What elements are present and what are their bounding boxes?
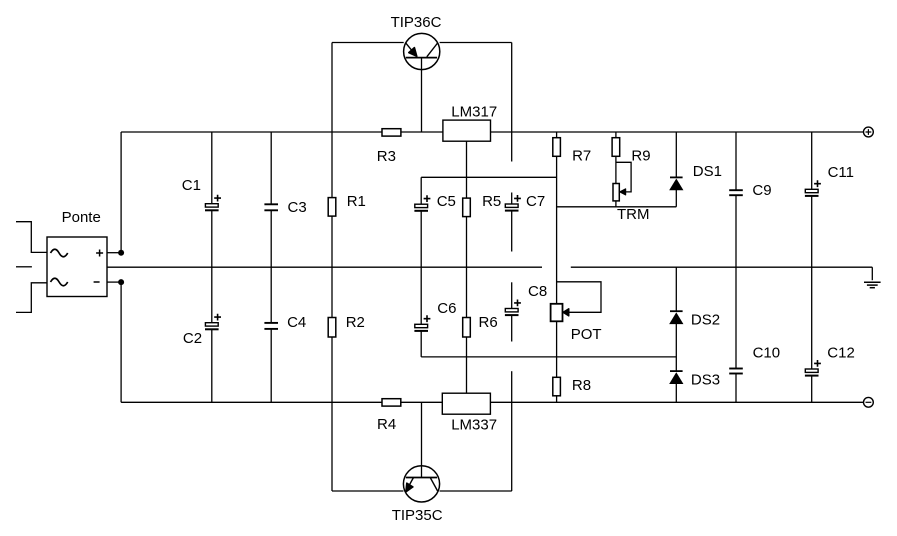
svg-text:R7: R7 <box>572 148 591 165</box>
svg-text:TIP36C: TIP36C <box>391 14 442 31</box>
svg-text:C5: C5 <box>437 193 456 210</box>
bridge rectifier "Ponte" <box>47 237 107 297</box>
wire: C3 bottom / C4 top lead <box>270 210 272 323</box>
ground symbol <box>864 267 881 288</box>
wire: C7 bottom lead <box>511 211 513 251</box>
terminal - output <box>864 397 874 407</box>
svg-text:R6: R6 <box>479 314 498 331</box>
wire: DS2 top lead from 0V rail <box>675 267 677 311</box>
wire: C6 bottom lead to inner loop bottom <box>420 332 422 357</box>
wire: mid 0V rail right segment <box>571 266 873 268</box>
capacitor C8 (electrolytic) <box>505 300 521 316</box>
diode DS2 <box>670 311 683 324</box>
wire: C12 bottom lead <box>811 376 813 402</box>
wire: C2 bottom lead <box>211 330 213 402</box>
terminal + output <box>864 127 874 137</box>
resistor R1 <box>328 198 336 217</box>
wire: TIP35C collector to right vertical <box>440 490 512 492</box>
wire: C5 top lead (inner loop left vertical) <box>420 177 422 204</box>
svg-text:R3: R3 <box>377 148 396 165</box>
svg-text:R4: R4 <box>377 416 396 433</box>
trimmer TRM <box>613 184 626 201</box>
svg-text:TRM: TRM <box>617 206 650 223</box>
wire: AC input center tap lead <box>16 266 32 268</box>
wire: R9 top lead <box>615 132 617 138</box>
junction dot + output <box>118 250 124 256</box>
resistor R5 <box>463 198 471 217</box>
svg-text:C12: C12 <box>827 345 855 362</box>
wire: DS3 bottom lead <box>675 384 677 403</box>
wire: left column up to top rail <box>120 132 122 253</box>
svg-text:R9: R9 <box>631 148 650 165</box>
wire: C1 top lead <box>211 132 213 204</box>
wire: C4 bottom lead <box>270 329 272 402</box>
svg-text:R8: R8 <box>572 377 591 394</box>
svg-text:LM337: LM337 <box>451 417 497 434</box>
wire: DS2 to DS3 <box>675 324 677 371</box>
wire: R8 bottom lead <box>556 396 558 403</box>
wire: R1 top lead <box>331 132 333 198</box>
svg-text:LM317: LM317 <box>451 104 497 121</box>
svg-text:C10: C10 <box>753 345 781 362</box>
wire: C5 bottom / C6 top lead <box>420 211 422 324</box>
svg-text:R1: R1 <box>347 193 366 210</box>
svg-text:C9: C9 <box>752 182 771 199</box>
wire: TIP36C collector to right vertical <box>440 42 512 44</box>
wire: bottom loop horizontal left to TIP35C emitter <box>332 490 403 492</box>
wire: AC input lead 1 (top) <box>16 222 47 253</box>
svg-text:DS3: DS3 <box>691 372 720 389</box>
svg-text:C2: C2 <box>183 330 202 347</box>
resistor R9 <box>612 138 620 157</box>
wire: top rail (+ raw supply) y=132 <box>121 131 864 133</box>
wire: C1 bottom / C2 top lead <box>211 211 213 323</box>
capacitor C4 <box>264 323 278 329</box>
wire: DS1 bottom lead <box>675 190 677 207</box>
capacitor C1 (electrolytic) <box>205 195 221 211</box>
wire: inner loop bottom horizontal <box>421 356 676 358</box>
wire: C11 top lead <box>811 132 813 189</box>
wire: TIP36C emitter loop left vertical <box>331 43 333 133</box>
wire: TRM wiper loop <box>616 162 631 192</box>
capacitor C2 (electrolytic) <box>205 314 221 330</box>
svg-text:C3: C3 <box>288 199 307 216</box>
resistor R7 <box>553 138 561 157</box>
wire: POT bottom lead <box>556 321 558 377</box>
capacitor C5 (electrolytic) <box>414 195 430 211</box>
wire: TIP35C base up to bottom rail <box>421 402 423 477</box>
wire: C3 top lead <box>270 132 272 204</box>
wire: TIP35C emitter loop left vertical <box>331 402 333 491</box>
wire: R2 bottom lead <box>331 337 333 402</box>
capacitor C7 (electrolytic) <box>505 195 521 211</box>
svg-text:POT: POT <box>571 326 602 343</box>
wire: left column down to bottom rail <box>120 282 122 402</box>
capacitor C6 (electrolytic) <box>414 315 430 331</box>
svg-text:DS2: DS2 <box>691 312 720 329</box>
svg-text:C7: C7 <box>526 193 545 210</box>
resistor R3 <box>382 129 401 136</box>
svg-text:TIP35C: TIP35C <box>392 507 443 524</box>
diode DS3 <box>670 371 683 384</box>
wire: TRM bottom lead <box>615 201 617 207</box>
capacitor C12 (electrolytic) <box>805 360 821 376</box>
svg-text:C4: C4 <box>287 314 306 331</box>
wire: C9 top lead <box>735 132 737 190</box>
wire: R9 to TRM <box>615 156 617 183</box>
wire: bridge + output to left column <box>107 252 121 254</box>
wire: mid 0V rail left segment <box>107 266 542 268</box>
svg-text:DS1: DS1 <box>693 163 722 180</box>
wire: R1 bottom lead to 0V rail <box>331 216 333 267</box>
resistor R8 <box>553 377 561 396</box>
wire: R6 bottom lead <box>466 337 468 357</box>
capacitor C11 (electrolytic) <box>805 180 821 196</box>
svg-text:R5: R5 <box>482 193 501 210</box>
wire: R7 top lead <box>556 132 558 138</box>
svg-text:C6: C6 <box>437 300 456 317</box>
wire: C11 bottom / C12 top lead <box>811 197 813 370</box>
wire: LM317 ADJ pin down <box>466 141 468 198</box>
regulator U1 LM317 <box>443 120 491 141</box>
wire: C7 top stub <box>511 193 513 205</box>
wire: bridge - output to left column <box>107 281 121 283</box>
wire: POT wiper loop <box>557 282 601 313</box>
svg-text:C11: C11 <box>828 164 854 181</box>
svg-text:Ponte: Ponte <box>62 209 101 226</box>
wire: bottom rail (- raw supply) y=402.3 <box>121 401 864 403</box>
wire: DS1 top lead from rail <box>675 132 677 177</box>
wire: TIP36C base down to top rail <box>421 58 423 132</box>
transistor Q2 TIP35C (NPN) <box>403 466 439 502</box>
wire: LM337 ADJ pin up <box>466 357 468 393</box>
junction dot - output <box>118 279 124 285</box>
wire: top loop horizontal left to TIP36C emitter <box>332 42 404 44</box>
wire: C10 bottom lead <box>735 374 737 403</box>
wire: R5 bottom to R6 top <box>466 217 468 318</box>
wire: C8 bottom lead <box>511 316 513 342</box>
resistor R6 <box>463 318 471 338</box>
transistor Q1 TIP36C (PNP) <box>404 33 440 69</box>
capacitor C3 <box>264 204 278 210</box>
wire: top loop right vertical down past rail <box>511 43 513 162</box>
wire: C9 bottom / C10 top lead <box>735 195 737 368</box>
resistor R4 <box>382 399 401 406</box>
svg-text:R2: R2 <box>346 314 365 331</box>
potentiometer POT <box>551 304 569 322</box>
wire: R7 bottom long vertical <box>556 156 558 303</box>
svg-text:C8: C8 <box>528 283 547 300</box>
capacitor C9 <box>729 190 743 195</box>
capacitor C10 <box>729 369 743 374</box>
resistor R2 <box>328 318 336 338</box>
wire: bottom loop right vertical <box>511 371 513 491</box>
wire: C8 top lead <box>511 282 513 308</box>
wire: horizontal R7/TRM to DS1 <box>557 206 677 208</box>
regulator U2 LM337 <box>442 393 490 414</box>
wire: AC input lead 2 (bottom) <box>16 283 47 313</box>
wire: R2 top lead <box>331 267 333 317</box>
wire: inner loop top horizontal <box>421 176 556 178</box>
svg-text:C1: C1 <box>182 177 201 194</box>
diode DS1 <box>670 177 683 190</box>
